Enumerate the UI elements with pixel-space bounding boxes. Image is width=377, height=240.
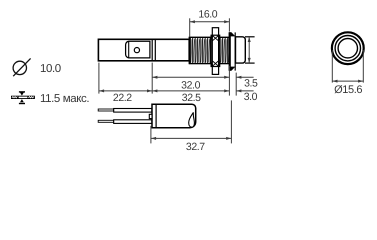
svg-text:16.0: 16.0 — [198, 8, 217, 20]
diameter symbol circle — [13, 61, 26, 74]
lamp base tab — [149, 114, 152, 118]
dim 22.2 line — [99, 90, 152, 92]
dia 15.6 right extension — [362, 50, 364, 83]
body section separator double lines — [151, 39, 153, 61]
dim 32.7 right extension — [230, 100, 232, 143]
panel symbol hatch speckle right — [28, 97, 33, 98]
svg-text:Ø15.6: Ø15.6 — [334, 84, 362, 96]
svg-text:3.5: 3.5 — [244, 77, 258, 89]
front view inner circle — [338, 39, 357, 58]
flange left thick bar — [229, 32, 231, 70]
extension line flange right — [235, 73, 237, 96]
svg-text:10.0: 10.0 — [40, 63, 61, 75]
dim 32.0 line — [152, 76, 229, 78]
svg-text:32.7: 32.7 — [186, 141, 205, 153]
lamp lower lead thick — [114, 120, 152, 124]
panel symbol top arrow — [19, 91, 25, 92]
thread left edge bar — [189, 37, 191, 64]
dim 16.0 right extension — [228, 18, 230, 31]
terminal hole circle — [134, 48, 139, 53]
diameter symbol slash — [13, 58, 30, 76]
lamp exhaust tip — [189, 112, 195, 127]
panel symbol hatch speckle left — [12, 97, 18, 98]
extension line left body — [98, 63, 100, 94]
svg-text:22.2: 22.2 — [113, 92, 132, 104]
front view outer circle — [332, 32, 364, 64]
dia 15.6 dim line — [332, 80, 363, 82]
body rectangle of holder — [98, 39, 189, 61]
svg-text:32.5: 32.5 — [182, 92, 201, 104]
cap top tick line — [245, 36, 255, 38]
svg-text:3.0: 3.0 — [244, 91, 258, 103]
dim 32.7 left extension — [150, 126, 152, 143]
extension line thread end — [228, 66, 230, 96]
terminal plate inner line — [128, 41, 130, 58]
lamp upper lead thick — [114, 109, 152, 113]
panel symbol white slot — [19, 97, 28, 99]
front view middle circle — [335, 36, 360, 61]
lamp upper lead thin — [98, 109, 114, 111]
lamp base inner line — [155, 104, 157, 127]
lamp lower lead thin — [98, 120, 114, 122]
nut chamfer marks — [211, 36, 214, 42]
flange top chamfer — [229, 32, 236, 36]
cap vertical dimension line — [248, 37, 250, 63]
dim 16.0 left extension — [189, 18, 191, 36]
terminal plate — [126, 41, 150, 58]
svg-text:11.5 макс.: 11.5 макс. — [40, 93, 89, 105]
nut wide middle — [211, 35, 220, 66]
dim 3.0 callout line — [236, 90, 253, 92]
dim 32.5 line — [152, 90, 229, 92]
flange bottom chamfer — [229, 67, 236, 71]
threaded section — [189, 37, 229, 63]
flange base white — [229, 32, 235, 70]
cap bottom tick line — [245, 62, 255, 64]
dia 15.6 left extension — [331, 50, 333, 83]
panel symbol bottom arrow — [19, 103, 25, 104]
dim 3.5 callout line — [236, 76, 253, 78]
svg-text:32.0: 32.0 — [181, 79, 200, 91]
extension line mid body — [151, 63, 153, 94]
nut narrow outline — [212, 28, 218, 75]
flange right edge — [234, 32, 236, 70]
dim 16.0 line — [190, 21, 230, 23]
panel thickness symbol bar — [11, 96, 35, 99]
lens cap — [236, 37, 246, 63]
dim 32.7 line — [151, 137, 232, 139]
lamp body — [152, 104, 196, 128]
